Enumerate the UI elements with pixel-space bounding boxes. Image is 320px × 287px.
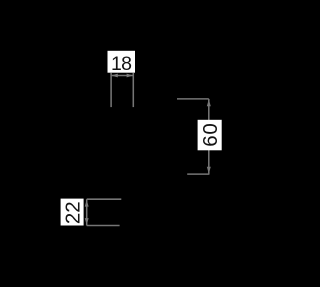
dimension 18: right arrowhead — [127, 74, 134, 78]
dimension 22: down arrowhead — [85, 218, 89, 225]
svg-text:18: 18 — [111, 53, 131, 75]
dimension 60: bottom extension line — [187, 173, 209, 175]
dimension 22: dimension line — [86, 199, 88, 225]
dimension 18: value label box — [108, 51, 136, 75]
dimension 60: dimension line — [208, 99, 210, 174]
dimension 18: dimension line — [111, 75, 133, 77]
dimension 18: extension line right — [132, 73, 134, 107]
svg-text:60: 60 — [199, 122, 222, 146]
dimension 60: top extension line — [177, 98, 209, 100]
dimension 60: up arrowhead — [207, 99, 211, 106]
dimension 18: left arrowhead — [111, 74, 118, 78]
dimension 22: bottom extension line — [87, 225, 120, 227]
dimension 22: top extension line — [87, 198, 122, 200]
dimension 60: down arrowhead — [207, 167, 211, 174]
dimension 18: extension line left — [110, 73, 112, 107]
svg-text:22: 22 — [62, 201, 85, 224]
dimension 22: up arrowhead — [85, 200, 89, 207]
dimension 60: value label box — [198, 120, 222, 151]
dimension 22: value label box — [61, 199, 85, 226]
